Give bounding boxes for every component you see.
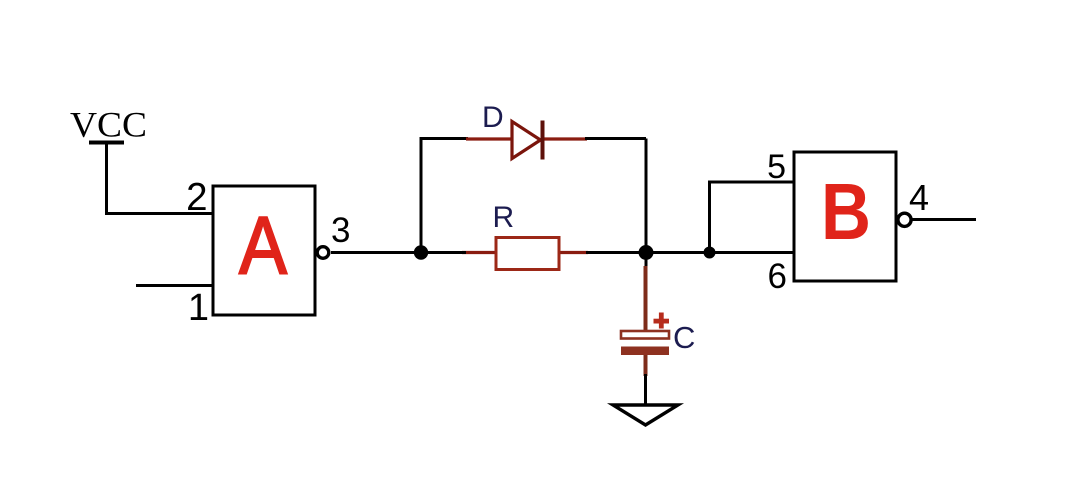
svg-text:B: B [821, 167, 871, 256]
junction node A (left) [414, 245, 428, 259]
svg-text:5: 5 [767, 148, 786, 186]
capacitor plus sign [654, 313, 670, 329]
wire VCC vertical to pin 2 [105, 144, 108, 214]
wire resistor left lead [462, 251, 496, 254]
gate U-A box [213, 186, 315, 315]
resistor R body [496, 238, 559, 270]
diode D [512, 121, 543, 160]
svg-text:3: 3 [331, 211, 350, 250]
wire pin 3 to node [331, 251, 421, 254]
svg-text:VCC: VCC [70, 105, 147, 145]
inverter bubble on pin 4 [898, 213, 911, 226]
wire node 2 to node 3 [646, 251, 709, 254]
svg-text:A: A [239, 201, 287, 292]
wire right vertical of diode branch [645, 139, 648, 253]
svg-text:1: 1 [188, 287, 209, 329]
svg-text:R: R [493, 201, 515, 234]
wire to ground [644, 374, 647, 405]
wire top branch to right vertical [585, 137, 646, 140]
wire capacitor bottom lead [644, 355, 648, 376]
junction node B (capacitor) [639, 245, 654, 260]
inverter bubble on pin 3 [317, 247, 329, 259]
wire node to resistor (black) [421, 251, 466, 254]
capacitor C top plate [621, 331, 669, 339]
wire capacitor top lead black stub [645, 253, 648, 269]
wire left vertical branch to diode [421, 139, 468, 253]
wire resistor right lead [559, 251, 588, 254]
svg-text:2: 2 [186, 176, 207, 219]
svg-text:D: D [482, 101, 504, 134]
wire diode cathode lead [542, 137, 587, 140]
capacitor C bottom plate [621, 347, 669, 356]
power symbol VCC [70, 105, 147, 145]
ground [613, 405, 678, 425]
svg-text:6: 6 [768, 257, 787, 296]
svg-text:4: 4 [909, 177, 929, 218]
junction node C (gate B input) [704, 247, 716, 259]
wire node 3 to pin 6 [709, 251, 794, 254]
svg-text:C: C [673, 320, 695, 355]
wire pin 1 horizontal [136, 284, 213, 287]
gate U-B box [794, 152, 896, 281]
wire resistor to node 2 (black) [586, 251, 646, 254]
wire pin 2 horizontal [105, 212, 213, 215]
wire capacitor top lead [644, 266, 648, 331]
wire node 3 up and right to pin 5 [710, 182, 795, 253]
wire pin 4 output [912, 218, 976, 221]
wire diode anode lead [466, 137, 512, 140]
